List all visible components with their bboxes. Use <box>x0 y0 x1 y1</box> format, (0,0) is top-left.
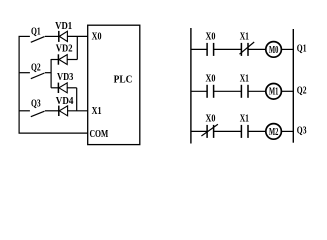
rung 1 wire to coil <box>248 48 265 50</box>
wire Q3 branch left <box>19 110 30 112</box>
contact X1 rung3 (NO) <box>241 125 248 138</box>
wire Q2 branch left <box>19 72 30 74</box>
svg-text:M0: M0 <box>269 45 278 56</box>
rung 1 wire coil to rail <box>281 48 293 50</box>
rung 2 wire left <box>191 90 207 92</box>
wire COM bottom <box>19 132 88 134</box>
wire Q2 to node <box>45 72 51 74</box>
rung 2 wire to coil <box>248 90 265 92</box>
coil M1 <box>266 84 282 100</box>
ladder right rail <box>292 29 294 143</box>
rung 2 wire coil to rail <box>281 90 293 92</box>
diode VD3 <box>58 83 67 93</box>
svg-text:X0: X0 <box>206 72 216 84</box>
svg-text:X1: X1 <box>240 113 249 125</box>
rung 3 wire coil to rail <box>281 130 293 132</box>
wire VD4 to X1 <box>68 110 88 112</box>
rung 3 wire left <box>191 130 207 132</box>
coil M2 <box>266 124 282 140</box>
contact X0 rung1 (NO) <box>207 43 214 56</box>
svg-text:X0: X0 <box>206 31 216 43</box>
wire VD3 anode from node <box>51 87 58 89</box>
diode VD2 <box>58 54 67 64</box>
rung 3 wire to coil <box>248 130 265 132</box>
rung 1 wire middle <box>214 48 242 50</box>
wire Q2 node vertical <box>50 59 52 88</box>
svg-text:Q1: Q1 <box>31 26 41 38</box>
svg-text:Q2: Q2 <box>297 85 307 97</box>
svg-text:VD2: VD2 <box>56 43 73 55</box>
diode VD1 <box>59 31 68 42</box>
left power rail <box>18 36 20 133</box>
svg-text:PLC: PLC <box>114 73 133 85</box>
contact X1 rung1 (NC) <box>240 42 255 56</box>
svg-text:VD1: VD1 <box>55 20 72 32</box>
wire VD3 to X1 line <box>67 88 77 111</box>
svg-text:X0: X0 <box>206 113 216 125</box>
diode VD4 <box>59 106 68 116</box>
svg-text:X0: X0 <box>92 31 102 43</box>
svg-text:VD3: VD3 <box>57 71 74 83</box>
ladder left rail <box>190 28 192 144</box>
rung 1 wire left <box>191 48 207 50</box>
wire Q3 to VD4 <box>45 110 59 112</box>
rung 2 wire middle <box>214 90 242 92</box>
wire VD2 output to junction <box>67 59 77 61</box>
svg-text:M2: M2 <box>269 127 278 138</box>
wire junction X0 line down to VD2 <box>76 36 78 59</box>
svg-text:Q3: Q3 <box>297 125 307 137</box>
contact X0 rung3 (NC) <box>201 124 218 138</box>
switch Q1 <box>31 37 45 43</box>
wire VD2 anode from Q2 node <box>51 59 58 61</box>
wire Q1 branch left <box>19 35 30 37</box>
wire Q1 to VD1 <box>45 35 59 37</box>
contact X0 rung2 (NO) <box>207 85 214 98</box>
svg-text:M1: M1 <box>269 87 278 98</box>
contact X1 rung2 (NO) <box>241 85 248 98</box>
svg-text:Q3: Q3 <box>31 98 41 110</box>
PLC box <box>88 25 140 144</box>
svg-text:X1: X1 <box>240 72 249 84</box>
svg-text:COM: COM <box>90 128 109 140</box>
svg-text:Q1: Q1 <box>297 43 307 55</box>
rung 3 wire middle <box>214 130 242 132</box>
svg-text:X1: X1 <box>92 105 102 117</box>
svg-text:X1: X1 <box>240 31 249 43</box>
switch Q2 <box>31 73 45 79</box>
switch Q3 <box>31 111 45 117</box>
svg-text:Q2: Q2 <box>31 61 41 73</box>
svg-text:VD4: VD4 <box>56 95 74 107</box>
coil M0 <box>266 42 282 58</box>
wire VD1 to X0 <box>67 35 87 37</box>
